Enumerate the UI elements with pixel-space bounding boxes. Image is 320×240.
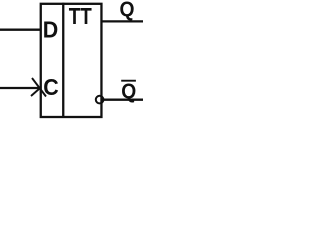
- svg-text:TT: TT: [69, 3, 92, 29]
- svg-text:Q: Q: [121, 80, 136, 103]
- svg-text:C: C: [43, 74, 59, 100]
- svg-text:Q: Q: [120, 0, 135, 21]
- svg-text:D: D: [43, 17, 59, 43]
